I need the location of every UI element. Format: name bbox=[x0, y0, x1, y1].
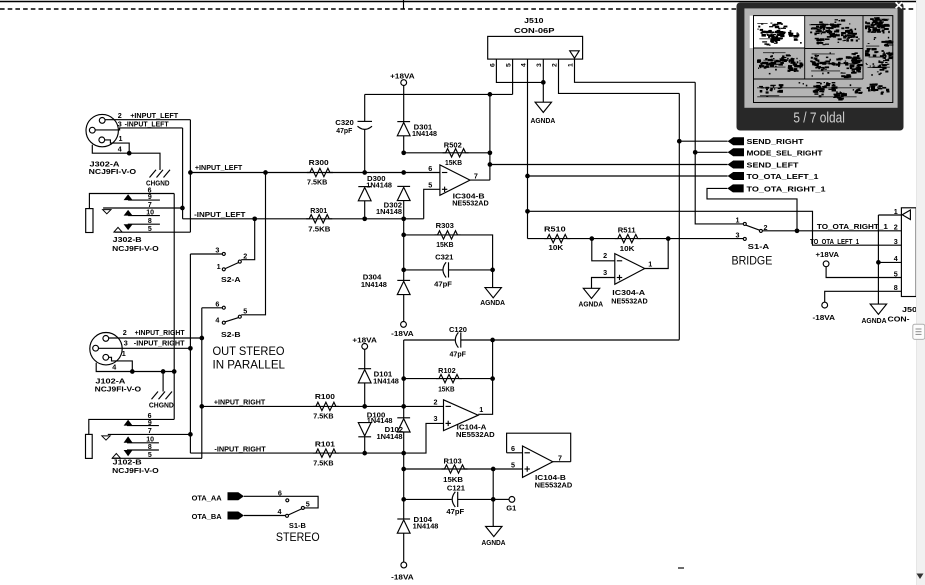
J510 pin1 polarity triangle bbox=[570, 51, 580, 58]
junction C121 row right bbox=[491, 497, 496, 502]
svg-text:C121: C121 bbox=[447, 483, 465, 492]
scrollbar down arrow bbox=[917, 574, 924, 580]
power +18VA (top) bbox=[401, 80, 407, 86]
wire J102-B row 8 bbox=[127, 449, 159, 451]
svg-text:R103: R103 bbox=[444, 456, 462, 465]
wire J102-B row 9 bbox=[127, 425, 159, 427]
svg-text:8: 8 bbox=[894, 283, 898, 292]
resistor R303 bbox=[404, 235, 493, 270]
wire AGNDA stem (right ch) bbox=[492, 469, 494, 526]
junction R102 left bbox=[401, 376, 406, 381]
wire -INPUT_LEFT row bbox=[183, 218, 424, 220]
resistor R100 bbox=[313, 402, 339, 410]
svg-text:7.5KB: 7.5KB bbox=[308, 225, 330, 234]
svg-text:NE5532AD: NE5532AD bbox=[535, 481, 573, 490]
page top dashed border line bbox=[0, 8, 925, 10]
S2-A pin2 contact bbox=[238, 260, 241, 263]
svg-text:NCJ9FI-V-O: NCJ9FI-V-O bbox=[89, 167, 137, 176]
S1-A pin3 contact bbox=[743, 237, 746, 240]
wire J302-A pin3 to -input vertical bbox=[95, 128, 182, 130]
svg-text:7.5KB: 7.5KB bbox=[313, 412, 333, 421]
svg-text:C120: C120 bbox=[449, 325, 467, 334]
node G1 bbox=[493, 498, 509, 500]
svg-text:1: 1 bbox=[894, 207, 898, 216]
junction +input row x=190 bbox=[188, 170, 193, 175]
svg-text:3: 3 bbox=[215, 246, 219, 255]
svg-text:S2-B: S2-B bbox=[221, 330, 241, 339]
S2-A switch arm bbox=[225, 263, 238, 269]
wire TO_OTA_RIGHT_1 loop to S1-A pin2 bbox=[707, 188, 797, 230]
svg-text:STEREO: STEREO bbox=[276, 532, 320, 544]
J302-B contact arrow row9 bbox=[124, 194, 133, 200]
junction row7 to -input vertical bbox=[180, 206, 185, 211]
junction C320/+input row bbox=[362, 170, 367, 175]
J102-A pin 3 contact bbox=[93, 345, 99, 351]
diode D100 bbox=[358, 423, 371, 436]
svg-text:2: 2 bbox=[894, 223, 898, 232]
svg-text:BRIDGE: BRIDGE bbox=[732, 256, 773, 268]
junction D302 pin5 node bbox=[401, 216, 406, 221]
svg-text:CHGND: CHGND bbox=[146, 178, 170, 187]
junction D101/+input right row bbox=[362, 404, 367, 409]
popup close button X bbox=[896, 2, 902, 8]
wire J302-B row 9 bbox=[128, 199, 160, 201]
svg-text:47pF: 47pF bbox=[336, 126, 353, 135]
S2-B pin4 contact bbox=[222, 321, 225, 324]
svg-text:8: 8 bbox=[148, 444, 152, 451]
S2-B pin5 contact bbox=[238, 315, 241, 318]
svg-text:-18VA: -18VA bbox=[391, 329, 414, 338]
svg-text:OUT STEREO: OUT STEREO bbox=[213, 344, 285, 358]
op-amp IC104-B feedback box bbox=[507, 433, 571, 462]
connector J102-A XLR shell bbox=[90, 333, 122, 365]
junction pin4 row / J302-B row6 tie bbox=[172, 369, 177, 374]
stray mark bbox=[678, 567, 684, 569]
junction pin1/pin4 J302-A bbox=[127, 151, 132, 156]
wire S2-B pin5 up to +input row bbox=[241, 173, 265, 315]
J510 pin 4 stub / TO_OTA_LEFT_1 vertical bbox=[527, 59, 529, 239]
J510 pin 2 stub bbox=[559, 59, 680, 93]
svg-text:-18VA: -18VA bbox=[391, 573, 414, 582]
svg-text:7.5KB: 7.5KB bbox=[313, 459, 333, 468]
J102-B contact arrow row10 bbox=[124, 436, 133, 442]
J510 pin 3 stub bbox=[542, 59, 544, 102]
wire right feedback node vertical x=404 bbox=[403, 340, 405, 418]
svg-text:5 / 7 oldal: 5 / 7 oldal bbox=[793, 111, 845, 127]
svg-text:5: 5 bbox=[148, 226, 152, 233]
svg-text:NCJ9FI-V-O: NCJ9FI-V-O bbox=[112, 244, 159, 253]
svg-text:AGNDA: AGNDA bbox=[862, 316, 888, 325]
svg-text:S1-B: S1-B bbox=[289, 521, 306, 530]
junction D102/-input right node bbox=[401, 451, 406, 456]
svg-text:6: 6 bbox=[489, 63, 496, 67]
svg-text:3: 3 bbox=[118, 120, 122, 129]
wire J302-A pin2 to +input vertical bbox=[105, 119, 190, 121]
junction C121 row left bbox=[401, 497, 406, 502]
svg-text:1N4148: 1N4148 bbox=[412, 130, 437, 138]
S2-A pin3 contact bbox=[222, 252, 225, 255]
junction J102 pin2 row / S2-B vertical bbox=[199, 336, 204, 341]
wire S2-A pin3 vertical down to J102 pin3 row bbox=[189, 254, 191, 453]
svg-text:10: 10 bbox=[146, 210, 154, 217]
J302-B tip mark row7 bbox=[103, 210, 111, 214]
node TO_OTA_LEFT_1 flag / wire bbox=[528, 175, 728, 177]
svg-text:5: 5 bbox=[428, 180, 432, 189]
junction J510 pin3/supply tie bbox=[541, 80, 546, 85]
svg-text:+INPUT_LEFT: +INPUT_LEFT bbox=[195, 163, 243, 172]
J510 pin 6 stub bbox=[496, 59, 543, 82]
svg-text:1N4148: 1N4148 bbox=[373, 377, 399, 385]
J102-B contact arrow row5-8 bbox=[124, 450, 133, 456]
svg-text:TO_OTA_LEFT_1: TO_OTA_LEFT_1 bbox=[747, 172, 819, 181]
J50x pin1 stub/marker bbox=[878, 214, 901, 216]
S2-B pin6 contact bbox=[222, 306, 225, 309]
junction D301/R502 bbox=[401, 150, 406, 155]
J510 pin 1 stub bbox=[575, 59, 696, 82]
wire MODE_SEL bus x=695 bbox=[695, 82, 743, 224]
S1-B pin4 contact bbox=[286, 514, 289, 517]
svg-text:1N4148: 1N4148 bbox=[413, 523, 439, 531]
resistor R502 bbox=[404, 152, 490, 154]
svg-text:R100: R100 bbox=[315, 392, 335, 401]
svg-text:15KB: 15KB bbox=[445, 158, 462, 167]
svg-text:1: 1 bbox=[122, 349, 126, 358]
svg-text:NE5532AD: NE5532AD bbox=[456, 430, 495, 439]
ground AGNDA (J510) bbox=[535, 102, 551, 112]
wire -input vertical x=182.6 bbox=[182, 128, 184, 219]
svg-text:SEND_LEFT: SEND_LEFT bbox=[747, 161, 800, 170]
svg-text:+INPUT_LEFT: +INPUT_LEFT bbox=[130, 111, 179, 120]
svg-text:4: 4 bbox=[278, 507, 282, 516]
wire J302-B row 5 bbox=[115, 231, 191, 233]
svg-text:3: 3 bbox=[894, 237, 898, 246]
wire J302-B row 7 bbox=[103, 207, 182, 209]
svg-text:NCJ9FI-V-O: NCJ9FI-V-O bbox=[95, 384, 142, 393]
svg-text:-INPUT_RIGHT: -INPUT_RIGHT bbox=[214, 445, 266, 454]
svg-text:S1-A: S1-A bbox=[748, 242, 770, 251]
wire J302-B row6 vertical to J102 pin4 row bbox=[173, 194, 175, 372]
wire J102-B row 10 bbox=[127, 442, 159, 444]
junction R502/feedback vertical bbox=[488, 150, 493, 155]
junction +input row / S2-B bbox=[263, 170, 268, 175]
svg-text:3: 3 bbox=[536, 63, 543, 67]
svg-text:TO_OTA_RIGHT_1: TO_OTA_RIGHT_1 bbox=[817, 222, 888, 231]
page top border solid line bbox=[0, 1, 925, 3]
wire TO_OTA_LEFT_1 to J50x pin3 bbox=[528, 211, 902, 245]
ground AGNDA (right ch) bbox=[486, 526, 502, 536]
wire J50x pin4 row bbox=[878, 261, 901, 263]
wire +INPUT_RIGHT row bbox=[202, 405, 444, 407]
wire IC304-A pin2 jog bbox=[592, 239, 615, 261]
J302-B contact arrow row10 bbox=[124, 210, 133, 216]
svg-text:TO_OTA_RIGHT_1: TO_OTA_RIGHT_1 bbox=[747, 184, 826, 193]
connector J102-B body bar bbox=[86, 434, 93, 458]
svg-text:1N4148: 1N4148 bbox=[366, 181, 392, 189]
svg-text:OTA_BA: OTA_BA bbox=[192, 512, 223, 521]
wire J102-B row 6 bbox=[89, 419, 174, 434]
junction pin4 bus / TO_OTA_LEFT_1 bbox=[525, 174, 530, 179]
wire J102-B row 5 bbox=[112, 457, 202, 459]
svg-text:1: 1 bbox=[567, 63, 574, 67]
J302-A pin 3 contact bbox=[89, 127, 95, 133]
svg-text:2: 2 bbox=[551, 63, 558, 67]
wire IC304-A output bbox=[645, 239, 669, 269]
svg-text:2: 2 bbox=[603, 251, 607, 260]
wire R511 row to S1-A pin3 bbox=[668, 238, 743, 240]
svg-text:7: 7 bbox=[474, 171, 478, 180]
J102-B ring mark row5 bbox=[112, 454, 120, 459]
svg-text:-INPUT_RIGHT: -INPUT_RIGHT bbox=[134, 339, 185, 348]
svg-text:3: 3 bbox=[124, 339, 128, 348]
diode D304 bbox=[397, 279, 410, 281]
J302-B ring mark row5 bbox=[114, 227, 122, 232]
svg-text:+INPUT_RIGHT: +INPUT_RIGHT bbox=[135, 328, 186, 337]
J102-A pin 1 contact bbox=[103, 354, 109, 360]
capacitor C121 bbox=[404, 498, 452, 500]
node TO_OTA_RIGHT_1 flag bbox=[727, 184, 743, 192]
resistor R102 bbox=[404, 378, 493, 380]
wire J302-A shell/pin4 row bbox=[92, 145, 160, 170]
svg-text:1: 1 bbox=[119, 134, 123, 143]
wire -INPUT_RIGHT row bbox=[190, 452, 404, 454]
resistor R300 bbox=[307, 168, 333, 176]
ground AGNDA (IC304-A) bbox=[583, 288, 599, 298]
svg-text:1N4148: 1N4148 bbox=[377, 433, 403, 441]
wire SEND_RIGHT bus x=679 bbox=[678, 93, 680, 339]
wire IC304-A pin3 to AGNDA bbox=[592, 278, 615, 289]
diode D302 bbox=[397, 185, 410, 187]
junction R103/AGNDA node bbox=[491, 467, 496, 472]
junction row7 / -input right vertical bbox=[188, 432, 193, 437]
wire IC104-B output bbox=[553, 461, 571, 463]
svg-text:R102: R102 bbox=[438, 366, 456, 375]
op-amp IC304-A bbox=[615, 254, 645, 285]
svg-text:1N4148: 1N4148 bbox=[367, 417, 393, 425]
svg-text:47pF: 47pF bbox=[450, 350, 467, 359]
junction rail / feedback vertical bbox=[488, 92, 493, 97]
svg-text:3: 3 bbox=[603, 268, 607, 277]
wire pin5 jog IC304-B bbox=[424, 189, 440, 219]
svg-text:AGNDA: AGNDA bbox=[579, 300, 604, 309]
power +18VA (right ch) bbox=[362, 344, 368, 350]
J102-B tip mark row7 bbox=[102, 436, 110, 440]
switch S2-A pin3 wire bbox=[190, 253, 222, 255]
svg-text:R502: R502 bbox=[444, 141, 462, 150]
svg-text:1: 1 bbox=[736, 216, 740, 225]
wire pin8 row to -18VA bbox=[825, 291, 902, 302]
S1-A pin1 contact bbox=[743, 222, 746, 225]
wire IC104-A pin3 jog bbox=[404, 423, 444, 453]
J102-A pin 2 contact bbox=[103, 336, 109, 342]
S2-B switch arm bbox=[225, 318, 238, 322]
S1-B pin5 contact bbox=[301, 506, 304, 509]
svg-text:2: 2 bbox=[123, 328, 127, 337]
svg-text:5: 5 bbox=[506, 63, 513, 67]
wire J102-A shell/pin4 row bbox=[96, 363, 175, 372]
svg-text:7.5KB: 7.5KB bbox=[307, 177, 327, 186]
junction C321 row right bbox=[490, 268, 495, 273]
connector J50x body bbox=[901, 208, 916, 297]
svg-text:-INPUT_LEFT: -INPUT_LEFT bbox=[125, 120, 170, 129]
svg-text:4: 4 bbox=[894, 254, 898, 263]
svg-text:G1: G1 bbox=[506, 503, 516, 512]
svg-text:5: 5 bbox=[894, 269, 898, 278]
svg-text:6: 6 bbox=[511, 444, 515, 453]
page thumbnail popup panel bbox=[737, 3, 904, 131]
ground AGNDA (left ch) bbox=[492, 270, 494, 288]
S2-A pin1 contact bbox=[222, 268, 225, 271]
svg-text:10K: 10K bbox=[548, 243, 564, 252]
svg-text:NCJ9FI-V-O: NCJ9FI-V-O bbox=[112, 466, 159, 475]
svg-text:R510: R510 bbox=[544, 225, 566, 234]
svg-text:3: 3 bbox=[434, 414, 438, 423]
junction output/SEND_LEFT row bbox=[488, 162, 493, 167]
svg-text:6: 6 bbox=[215, 299, 219, 308]
svg-text:8: 8 bbox=[148, 218, 152, 225]
svg-text:+18VA: +18VA bbox=[390, 72, 415, 81]
svg-text:6: 6 bbox=[428, 164, 432, 173]
switch S2-B pin6 wire bbox=[202, 307, 223, 309]
svg-text:J302-B: J302-B bbox=[113, 235, 142, 244]
svg-text:5: 5 bbox=[306, 499, 310, 508]
wire J302-B row 6 bbox=[89, 194, 174, 209]
svg-text:7: 7 bbox=[148, 428, 152, 435]
popup thumbnail page border bbox=[754, 16, 893, 103]
svg-text:4: 4 bbox=[118, 144, 122, 153]
ground CHGND (left) bbox=[150, 170, 157, 178]
svg-text:TO_OTA_LEFT_1: TO_OTA_LEFT_1 bbox=[810, 237, 859, 246]
svg-text:J510: J510 bbox=[524, 16, 543, 25]
wire J102-A pin3 row bbox=[99, 347, 191, 349]
svg-text:+INPUT_RIGHT: +INPUT_RIGHT bbox=[214, 397, 266, 406]
svg-text:1N4148: 1N4148 bbox=[361, 281, 387, 289]
diode D104 bbox=[397, 518, 410, 520]
svg-text:4: 4 bbox=[520, 63, 527, 67]
svg-text:47pF: 47pF bbox=[434, 280, 452, 289]
wire S2-A pin2 up to -input row bbox=[241, 219, 255, 260]
svg-text:SEND_RIGHT: SEND_RIGHT bbox=[747, 137, 805, 146]
wire J302-B row 10 bbox=[128, 215, 160, 217]
node SEND_LEFT flag / wire SEND_LEFT row bbox=[490, 164, 728, 166]
wire J102-B row6 vertical tie bbox=[173, 372, 175, 420]
resistor R103 bbox=[404, 468, 523, 470]
svg-text:OTA_AA: OTA_AA bbox=[192, 494, 223, 503]
popup thumbnail background bbox=[744, 8, 897, 107]
svg-text:9: 9 bbox=[148, 420, 152, 427]
wire -input node vertical x=404 bbox=[403, 219, 405, 281]
S1-A pin2 contact bbox=[759, 229, 762, 232]
junction R511/output bbox=[666, 236, 671, 241]
svg-text:7: 7 bbox=[148, 202, 152, 209]
svg-text:5: 5 bbox=[148, 452, 152, 459]
wire +18VA stem bbox=[403, 86, 405, 95]
svg-text:4: 4 bbox=[215, 315, 219, 324]
power -18VA (left ch) bbox=[401, 322, 407, 328]
svg-text:7: 7 bbox=[558, 453, 562, 462]
svg-text:2: 2 bbox=[434, 397, 438, 406]
svg-text:CON-: CON- bbox=[888, 315, 911, 324]
svg-text:C321: C321 bbox=[435, 253, 453, 262]
power -18VA (right ch) bbox=[401, 562, 407, 568]
junction pin2 node x=404 bbox=[401, 404, 406, 409]
capacitor C320 bbox=[364, 94, 366, 121]
junction MODE_SEL flag tap bbox=[693, 150, 698, 155]
wire feedback vertical x=490 bbox=[489, 94, 491, 180]
wire S1-A pin2 to J50x pin2 / TO_OTA_RIGHT row bbox=[762, 230, 901, 232]
scrollbar thumb bbox=[913, 324, 925, 339]
ground CHGND (right) stem bbox=[162, 372, 164, 392]
svg-text:R303: R303 bbox=[436, 221, 454, 230]
junction TO_OTA_RIGHT loop bbox=[795, 228, 800, 233]
wire OTA_BA to S1-B pin4 bbox=[244, 515, 286, 517]
svg-text:15KB: 15KB bbox=[436, 240, 453, 249]
resistor R511 bbox=[592, 238, 668, 240]
wire J102-A pin1 jog bbox=[109, 357, 133, 371]
junction D100/-input right row bbox=[362, 451, 367, 456]
wire S2-B pin6 vertical to J102 pin2 row bbox=[201, 308, 203, 459]
svg-text:J50: J50 bbox=[902, 305, 917, 314]
junction +INPUT_RIGHT row start bbox=[199, 404, 204, 409]
svg-text:-INPUT_LEFT: -INPUT_LEFT bbox=[194, 210, 246, 219]
popup thumbnail viewport highlight bbox=[750, 16, 805, 48]
junction -input row / S2-A bbox=[252, 216, 257, 221]
svg-text:1: 1 bbox=[479, 405, 483, 414]
svg-text:AGNDA: AGNDA bbox=[482, 538, 507, 547]
popup thumbnail circuit blobs bbox=[757, 17, 894, 100]
svg-text:47pF: 47pF bbox=[446, 507, 464, 516]
J510 pin 5 stub bbox=[512, 59, 514, 94]
svg-text:4: 4 bbox=[112, 363, 116, 372]
wire +INPUT_LEFT row bbox=[190, 172, 440, 174]
junction R102 right bbox=[490, 376, 495, 381]
junction R510/R511 bbox=[589, 236, 594, 241]
svg-text:1: 1 bbox=[217, 262, 221, 271]
J102-B contact arrow row9 bbox=[124, 420, 133, 426]
svg-text:AGNDA: AGNDA bbox=[531, 116, 556, 125]
svg-text:R300: R300 bbox=[309, 158, 329, 167]
op-amp IC304-B bbox=[440, 165, 470, 195]
connector J302-B body bar bbox=[86, 209, 93, 233]
wire J102-A pin2 row bbox=[109, 337, 202, 339]
ground AGNDA (J50x) bbox=[870, 304, 886, 314]
svg-text:3: 3 bbox=[736, 231, 740, 240]
capacitor C321 bbox=[404, 269, 443, 271]
wire +18VA to pin5 bbox=[826, 267, 901, 278]
resistor R101 bbox=[313, 449, 339, 457]
diode D300 bbox=[358, 186, 371, 188]
resistor R510 bbox=[528, 238, 592, 240]
diode D102 bbox=[397, 417, 410, 419]
svg-text:10: 10 bbox=[146, 437, 154, 444]
wire OTA_AA to S1-B pin5 bbox=[244, 496, 318, 508]
wire +18V rail bbox=[365, 93, 513, 95]
svg-text:AGNDA: AGNDA bbox=[480, 298, 505, 307]
J302-A pin 1 contact bbox=[99, 137, 105, 143]
junction C321 row left bbox=[401, 268, 406, 273]
S1-A switch arm bbox=[746, 225, 760, 230]
diode D101 bbox=[364, 349, 366, 368]
junction C120 row/output vertical bbox=[490, 338, 495, 343]
wire IC304-B output bbox=[470, 179, 490, 181]
junction D302 top/+input row bbox=[401, 170, 406, 175]
capacitor C120 bbox=[455, 332, 458, 347]
svg-text:9: 9 bbox=[148, 194, 152, 201]
svg-text:R101: R101 bbox=[315, 439, 335, 448]
wire IC104-A output loop bbox=[478, 340, 492, 414]
scrollbar track bbox=[916, 0, 925, 585]
wire C120 row bbox=[404, 339, 455, 341]
svg-text:S2-A: S2-A bbox=[221, 275, 241, 284]
